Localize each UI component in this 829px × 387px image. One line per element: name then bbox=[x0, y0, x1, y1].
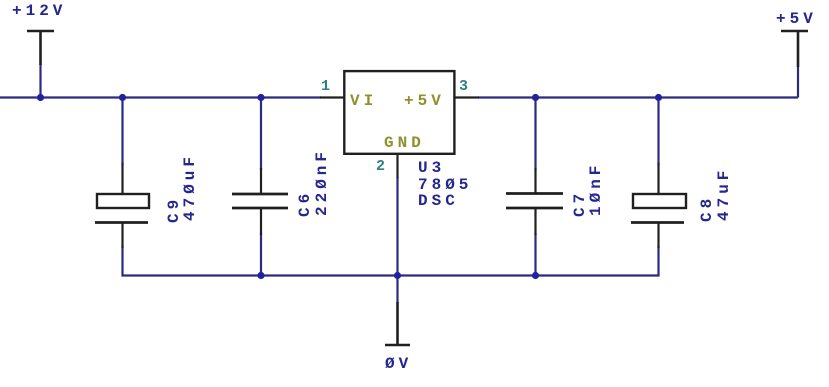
junction: C8 on top rail bbox=[655, 94, 662, 101]
wire: C8 top lead net bbox=[657, 98, 659, 166]
svg-text:DSC: DSC bbox=[418, 192, 459, 210]
junction: C9 on top rail bbox=[119, 94, 126, 101]
junction: C7 on top rail bbox=[532, 94, 539, 101]
junction: C6 on top rail bbox=[257, 94, 264, 101]
wire: 0V terminal drop bbox=[396, 276, 398, 304]
junction: C7 on bottom rail bbox=[532, 272, 539, 279]
svg-text:+12V: +12V bbox=[12, 2, 66, 20]
svg-text:22ØnF: 22ØnF bbox=[313, 148, 331, 216]
supply terminal +5V symbol bbox=[781, 31, 808, 67]
wire: C9 top lead net bbox=[121, 98, 123, 166]
svg-text:1: 1 bbox=[321, 78, 330, 95]
svg-text:2: 2 bbox=[376, 158, 385, 175]
svg-text:ØV: ØV bbox=[385, 355, 412, 373]
svg-text:U3: U3 bbox=[418, 159, 445, 177]
junction: GND pin on bottom rail bbox=[394, 272, 401, 279]
wire: +12V terminal drop bbox=[39, 64, 41, 98]
svg-text:C6: C6 bbox=[296, 190, 314, 217]
junction: +12V drop on top rail bbox=[37, 94, 44, 101]
wire: top rail right segment (+5V net) bbox=[478, 96, 798, 98]
wire: C6 bottom lead net bbox=[260, 233, 262, 276]
wire: top rail left segment (+12V net) bbox=[0, 96, 321, 98]
capacitor C7 bbox=[506, 168, 563, 235]
capacitor C9 (polarized) bbox=[95, 163, 149, 248]
svg-text:VI: VI bbox=[350, 92, 377, 110]
wire: C7 top lead net bbox=[534, 98, 536, 171]
capacitor C6 bbox=[232, 168, 288, 235]
voltage regulator U3 box bbox=[344, 71, 454, 154]
junction: C6 on bottom rail bbox=[257, 272, 264, 279]
svg-text:+5V: +5V bbox=[776, 10, 817, 28]
svg-text:47uF: 47uF bbox=[715, 167, 733, 221]
wire: C7 bottom lead net bbox=[534, 233, 536, 276]
wire: +5V riser at right bbox=[797, 66, 799, 98]
supply terminal +12V symbol bbox=[27, 31, 54, 65]
svg-text:+5V: +5V bbox=[404, 92, 445, 110]
wire: C6 top lead net bbox=[260, 98, 262, 171]
svg-text:GND: GND bbox=[384, 134, 425, 152]
svg-text:1ØnF: 1ØnF bbox=[587, 162, 605, 216]
pin 1 stub (VI) bbox=[320, 96, 344, 98]
svg-text:47ØuF: 47ØuF bbox=[181, 153, 199, 221]
wire: bottom ground rail bbox=[123, 246, 659, 276]
ground terminal 0V symbol bbox=[385, 302, 410, 345]
svg-text:3: 3 bbox=[459, 78, 468, 95]
pin 2 stub (GND) bbox=[396, 154, 398, 178]
pin 3 stub (+5V out) bbox=[454, 96, 479, 98]
wire: regulator GND pin net bbox=[396, 177, 398, 276]
svg-text:C8: C8 bbox=[698, 195, 716, 222]
capacitor C8 (polarized) bbox=[631, 163, 686, 248]
